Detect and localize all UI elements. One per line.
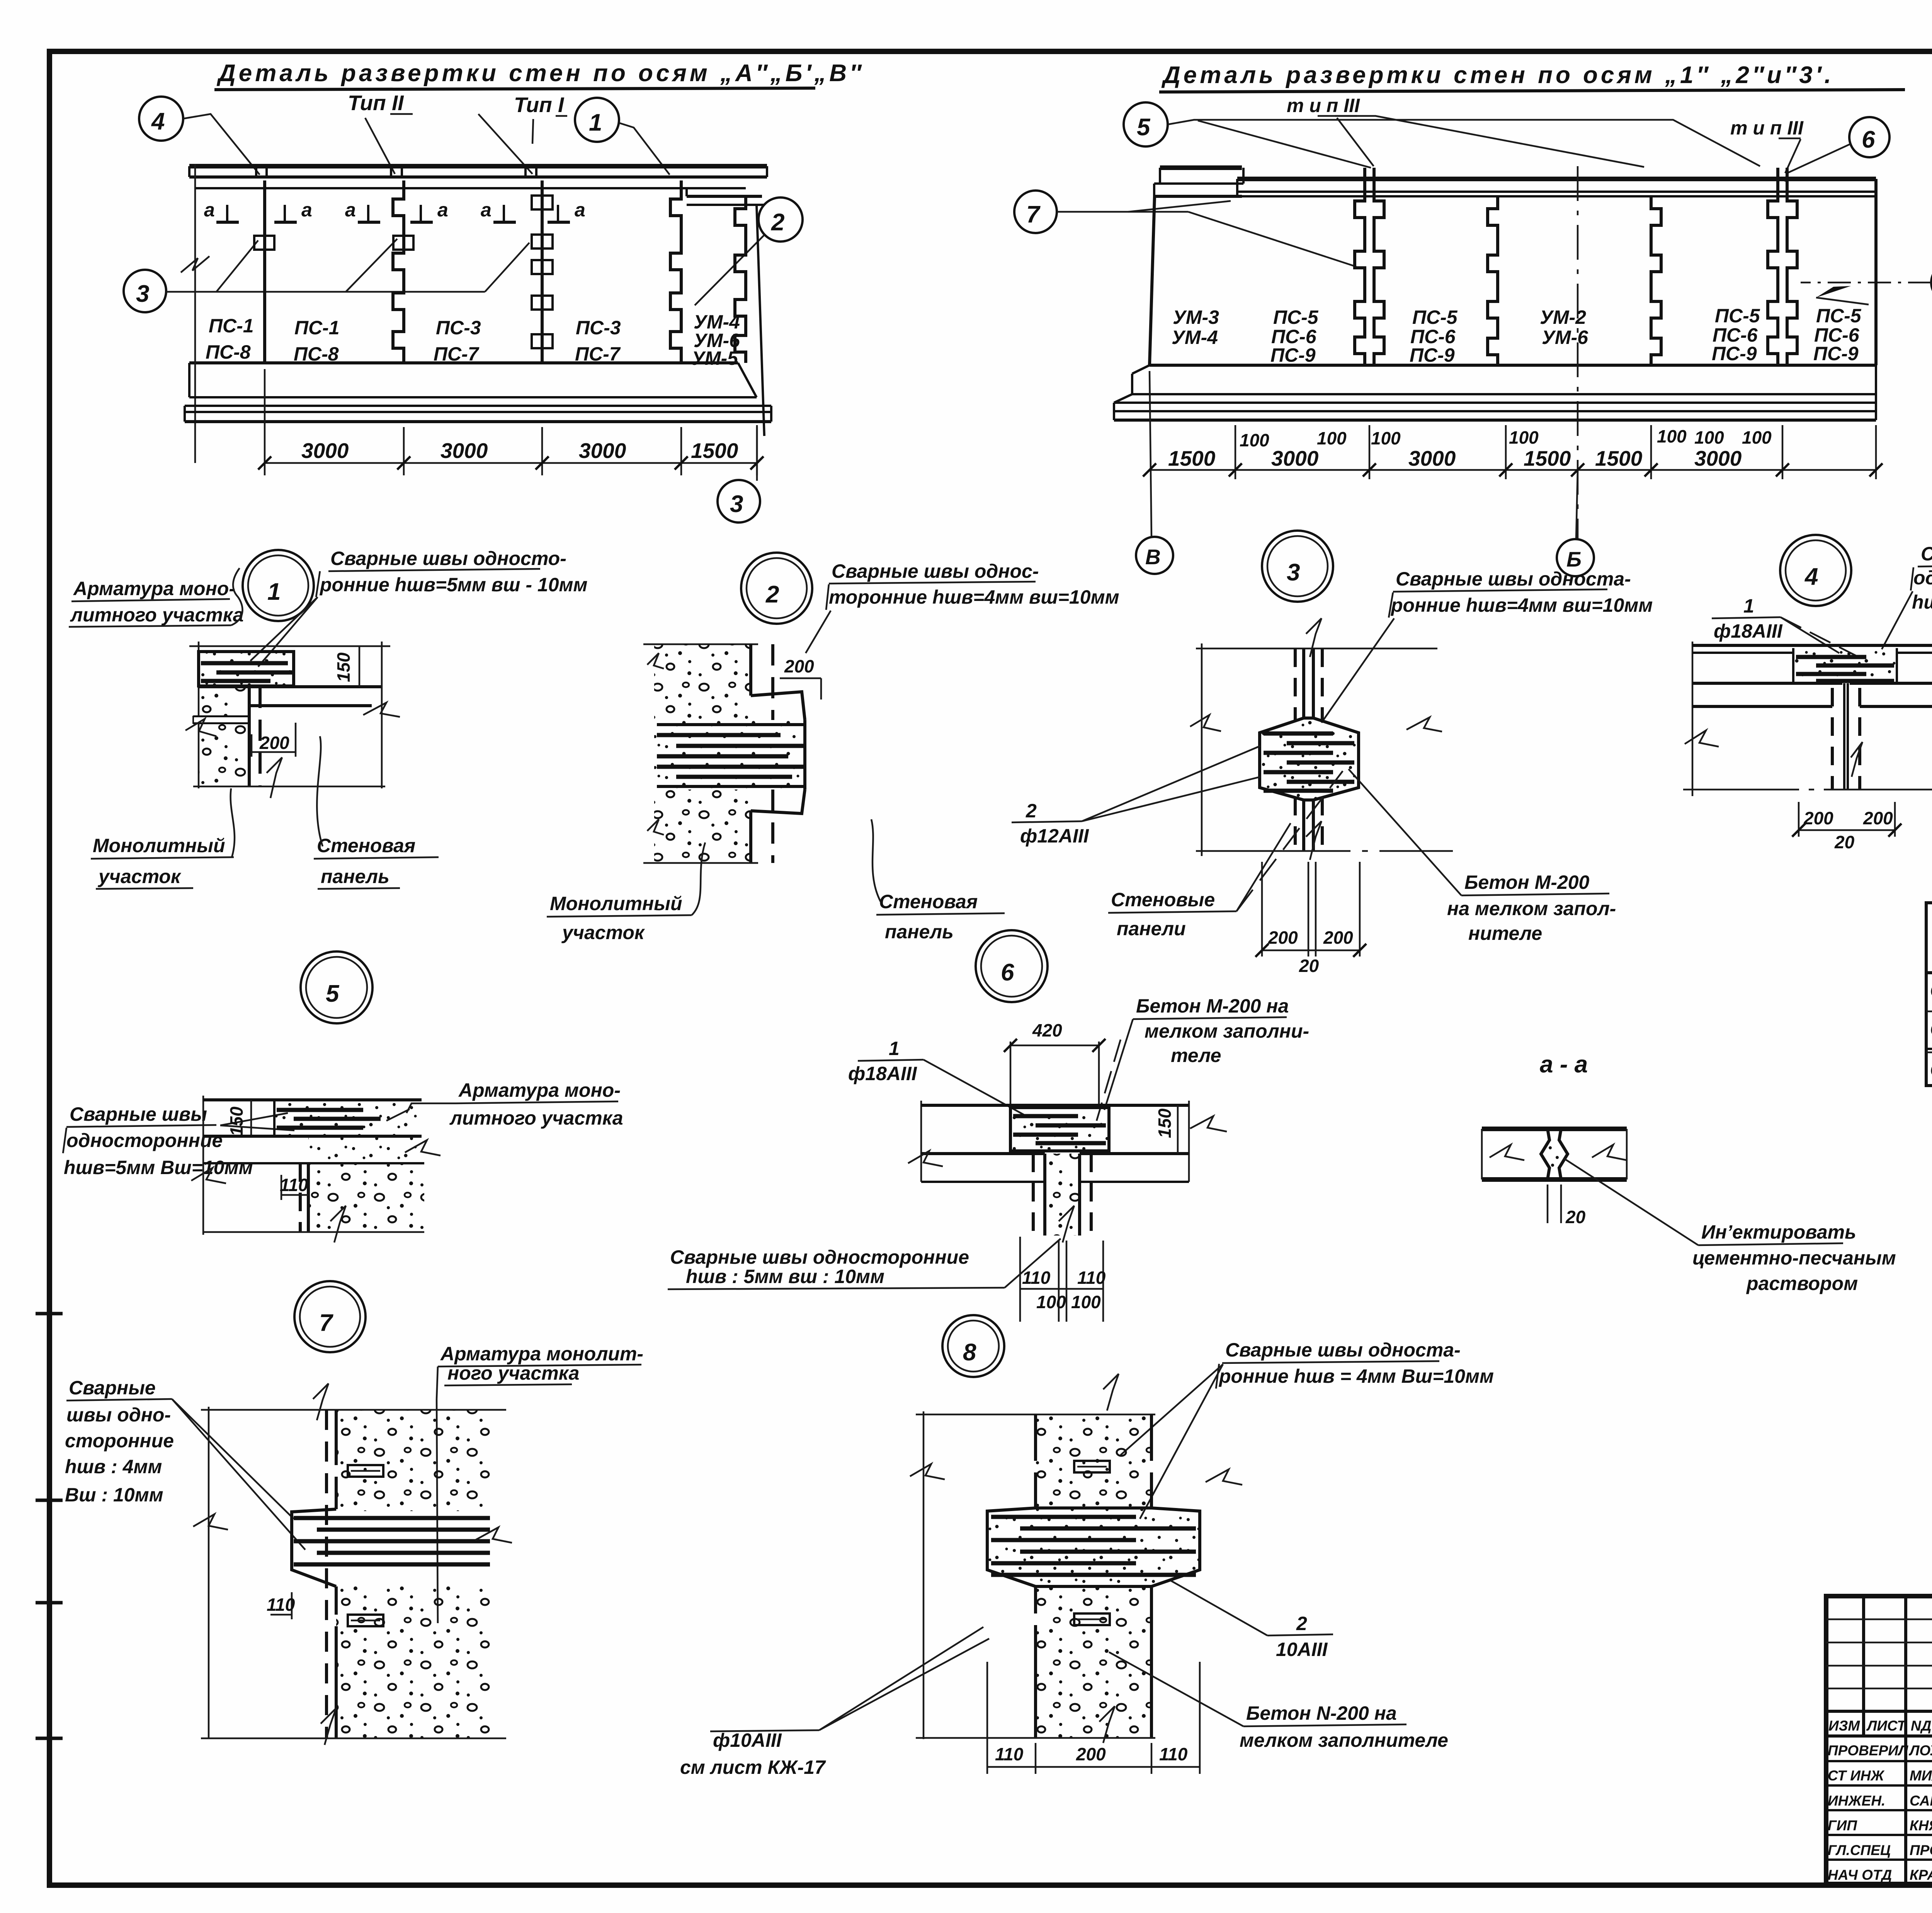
svg-text:Бетон N-200 на: Бетон N-200 на bbox=[1246, 1702, 1397, 1724]
callout circle 4 bbox=[139, 97, 260, 175]
break marks bbox=[193, 1514, 228, 1530]
svg-text:Стеновые: Стеновые bbox=[1111, 889, 1215, 911]
corner panel left bbox=[1150, 168, 1243, 365]
wall bottom edge bbox=[189, 361, 738, 364]
svg-text:ПС-3: ПС-3 bbox=[576, 317, 621, 339]
detail circle 4 bbox=[1780, 535, 1851, 606]
svg-text:Инʼектировать: Инʼектировать bbox=[1701, 1221, 1856, 1243]
binding ticks on left border bbox=[36, 1312, 63, 1316]
svg-text:Деталь развертки стен по ос: Деталь развертки стен по осям „А″„Б′„В″ bbox=[216, 60, 864, 87]
break marks bbox=[1685, 730, 1719, 747]
section a-a drawing bbox=[1482, 1129, 1627, 1227]
dims 110 200 110 det8 bbox=[987, 1662, 1200, 1774]
svg-text:Сварные швы одноcта-: Сварные швы одноcта- bbox=[1225, 1339, 1461, 1361]
label: Бетон М-200 на мелком заполнителе det6 bbox=[1097, 995, 1309, 1121]
svg-text:Тип II: Тип II bbox=[348, 91, 404, 115]
svg-text:hшв=6мм вш=10мм: hшв=6мм вш=10мм bbox=[1912, 591, 1932, 613]
svg-text:МИХАЛЕВА: МИХАЛЕВА bbox=[1910, 1768, 1932, 1784]
callout circle 3 bottom right bbox=[718, 425, 760, 523]
svg-text:ПС-9: ПС-9 bbox=[1410, 344, 1455, 366]
svg-text:100: 100 bbox=[1509, 427, 1539, 448]
joint тип III at 3544 bbox=[1355, 168, 1384, 365]
leader from Тип I to joint bbox=[532, 119, 533, 144]
break marks bbox=[908, 1151, 943, 1166]
label: Арматура монолитного участка det7 bbox=[437, 1343, 643, 1623]
lower column bbox=[1036, 1586, 1151, 1738]
svg-text:Сварные швы одноcта-: Сварные швы одноcта- bbox=[1396, 568, 1631, 590]
callout circle 7 bbox=[1014, 191, 1356, 267]
svg-text:1500: 1500 bbox=[691, 439, 738, 463]
wall top cap beam bbox=[189, 166, 767, 188]
corner cap right bbox=[687, 188, 764, 436]
joint тип III at 4613 bbox=[1768, 168, 1797, 365]
panel bottom edges bbox=[1692, 682, 1842, 685]
svg-text:Сварные: Сварные bbox=[69, 1377, 156, 1399]
svg-text:литного участка: литного участка bbox=[70, 604, 244, 626]
200 dim bbox=[251, 734, 253, 757]
svg-text:Стеновая: Стеновая bbox=[317, 835, 415, 856]
drawing detail 2: vertical joint elevation bbox=[643, 644, 821, 863]
svg-text:а: а bbox=[481, 199, 492, 221]
svg-text:КРАСАВИН: КРАСАВИН bbox=[1910, 1867, 1932, 1883]
svg-text:20: 20 bbox=[1565, 1207, 1586, 1227]
label: Сварные швы односторонние hшв 4мм (det3) bbox=[1321, 568, 1653, 723]
svg-text:Б: Б bbox=[1566, 547, 1582, 571]
concrete block below bbox=[199, 687, 249, 786]
svg-text:200: 200 bbox=[784, 656, 814, 676]
svg-text:САРАНЧА: САРАНЧА bbox=[1910, 1793, 1932, 1809]
label: Арматура монолитного участка det5 bbox=[386, 1079, 623, 1129]
lower panel tongue bbox=[751, 790, 805, 814]
base slab bbox=[185, 363, 771, 422]
label Тип I bbox=[514, 93, 567, 117]
svg-text:а: а bbox=[301, 199, 312, 221]
axis circle Б bbox=[1557, 539, 1594, 576]
svg-text:ПС-8: ПС-8 bbox=[294, 343, 339, 365]
svg-text:8: 8 bbox=[963, 1339, 976, 1366]
lower block bbox=[308, 1163, 424, 1232]
svg-text:мелком заполнителе: мелком заполнителе bbox=[1240, 1729, 1448, 1751]
svg-text:а: а bbox=[345, 199, 356, 221]
svg-text:ф12АIII: ф12АIII bbox=[1020, 825, 1089, 847]
svg-text:200: 200 bbox=[1268, 928, 1298, 948]
drawing detail 8 bbox=[910, 1374, 1242, 1743]
svg-text:участок: участок bbox=[97, 866, 182, 887]
personnel header bbox=[1828, 1718, 1932, 1734]
dimension line 3000x3 1500 bbox=[258, 369, 764, 475]
upper concrete column bbox=[336, 1410, 491, 1511]
callout circle 1 bbox=[575, 98, 670, 175]
svg-text:2: 2 bbox=[771, 209, 784, 236]
svg-text:ПС-8: ПС-8 bbox=[206, 341, 251, 363]
joint gap lines down bbox=[1843, 683, 1845, 790]
svg-text:Арматура моно-: Арматура моно- bbox=[73, 578, 235, 599]
svg-text:швы одно-: швы одно- bbox=[66, 1404, 171, 1426]
svg-text:УМ-4: УМ-4 bbox=[1172, 327, 1218, 348]
section marks a bbox=[204, 199, 585, 222]
callout circle 3 left bbox=[124, 239, 529, 312]
svg-text:10АIII: 10АIII bbox=[1276, 1639, 1328, 1660]
small 100 dims bbox=[1240, 426, 1772, 450]
svg-text:ф18АIII: ф18АIII bbox=[1714, 620, 1783, 642]
svg-text:110: 110 bbox=[267, 1595, 295, 1615]
svg-text:панели: панели bbox=[1117, 918, 1186, 939]
detail circle 2 bbox=[741, 553, 812, 624]
svg-text:100: 100 bbox=[1240, 430, 1269, 450]
svg-text:5: 5 bbox=[326, 980, 340, 1007]
monolith strip with welds bbox=[199, 652, 294, 686]
svg-text:ПС-9: ПС-9 bbox=[1712, 343, 1757, 364]
svg-text:УМ-3: УМ-3 bbox=[1173, 306, 1219, 328]
svg-text:110: 110 bbox=[280, 1175, 308, 1195]
main cap beam bbox=[1237, 179, 1876, 196]
label тип III left bbox=[1287, 95, 1360, 116]
svg-text:УМ-6: УМ-6 bbox=[1542, 327, 1588, 348]
svg-text:6: 6 bbox=[1001, 959, 1014, 986]
dashed axis bbox=[325, 1410, 328, 1738]
label: Бетон N-200 на мелком заполнителе bbox=[1109, 1652, 1448, 1751]
table2 rows bbox=[1930, 978, 1932, 1081]
lower concrete column bbox=[336, 1586, 491, 1739]
panel labels bbox=[206, 311, 740, 369]
svg-text:ПС-5: ПС-5 bbox=[1715, 305, 1760, 327]
label: 1 ф18АIII det6 bbox=[848, 1038, 1028, 1117]
break marks bbox=[1190, 715, 1221, 731]
svg-text:ГЛ.СПЕЦ: ГЛ.СПЕЦ bbox=[1828, 1842, 1891, 1858]
svg-text:панель: панель bbox=[885, 921, 954, 943]
label: Сварные швы односторонние hшв 5мм det5 bbox=[63, 1103, 294, 1178]
dims 110 110 100 100 det6 bbox=[1020, 1237, 1106, 1322]
upper column bbox=[1302, 648, 1305, 717]
svg-text:КНЯГНИЧЕВ: КНЯГНИЧЕВ bbox=[1910, 1818, 1932, 1833]
svg-text:ПС-7: ПС-7 bbox=[575, 343, 621, 365]
svg-text:3000: 3000 bbox=[301, 439, 349, 463]
dims 200 200 20 det3 bbox=[1255, 862, 1366, 976]
svg-text:3000: 3000 bbox=[1271, 446, 1319, 470]
svg-text:участок: участок bbox=[561, 922, 645, 943]
svg-text:ЛОУЦКЕР: ЛОУЦКЕР bbox=[1908, 1743, 1932, 1758]
svg-text:литного участка: литного участка bbox=[449, 1107, 623, 1129]
label: Сварные швы односторонние hшв 6мм bbox=[1882, 543, 1932, 649]
detail circle 8 bbox=[942, 1315, 1004, 1377]
svg-text:150: 150 bbox=[226, 1106, 247, 1136]
wall bottom bbox=[1150, 364, 1876, 367]
callout circle 6 bbox=[1785, 117, 1889, 182]
callout circle 2 bbox=[695, 197, 803, 305]
drawing detail 4: horizontal joint plan bbox=[1683, 642, 1932, 796]
svg-text:т и п III: т и п III bbox=[1730, 117, 1804, 139]
label: Монолитный участок det2 bbox=[547, 842, 705, 943]
svg-text:теле: теле bbox=[1171, 1045, 1221, 1066]
svg-text:Монолитный: Монолитный bbox=[93, 835, 225, 856]
svg-text:а: а bbox=[575, 199, 585, 221]
rhombus joint bbox=[1541, 1129, 1549, 1179]
svg-text:УМ-2: УМ-2 bbox=[1540, 306, 1586, 328]
svg-text:Тип I: Тип I bbox=[514, 93, 565, 117]
svg-text:ПС-5: ПС-5 bbox=[1273, 306, 1319, 328]
svg-text:т и п III: т и п III bbox=[1287, 95, 1360, 116]
svg-text:20: 20 bbox=[1299, 956, 1319, 976]
svg-text:2: 2 bbox=[1296, 1613, 1307, 1634]
svg-text:200: 200 bbox=[1803, 808, 1833, 828]
svg-text:7: 7 bbox=[1026, 201, 1041, 228]
middle band bbox=[308, 1138, 422, 1163]
svg-text:мелком заполни-: мелком заполни- bbox=[1145, 1020, 1309, 1042]
svg-text:1: 1 bbox=[267, 579, 281, 605]
drawing detail 1 corner joint bbox=[185, 642, 400, 798]
label: Сварные швы односторонние hшв 5мм bbox=[250, 548, 587, 667]
svg-text:односторонние: односторонние bbox=[1913, 567, 1932, 589]
label: Арматура монолитного участка bbox=[69, 568, 244, 627]
label: Инъектировать цементно-песчаным раствором bbox=[1564, 1159, 1896, 1294]
svg-text:100: 100 bbox=[1694, 427, 1724, 448]
svg-text:СТ ИНЖ: СТ ИНЖ bbox=[1828, 1768, 1885, 1784]
label: 2 10АIII det8 bbox=[1171, 1581, 1333, 1660]
second band line bbox=[921, 1181, 1045, 1183]
svg-text:Стык панелей ТипI: Стык панелей ТипI bbox=[1930, 980, 1932, 1001]
svg-text:1500: 1500 bbox=[1595, 446, 1643, 470]
svg-text:Деталь развертки стен по ос: Деталь развертки стен по осям „1″ „2″и″3… bbox=[1161, 62, 1834, 89]
dashed lines bbox=[1294, 648, 1297, 721]
svg-text:1: 1 bbox=[1743, 595, 1754, 617]
svg-text:3000: 3000 bbox=[1408, 446, 1456, 470]
leader from Тип II to joint bbox=[365, 118, 395, 174]
svg-text:100: 100 bbox=[1071, 1292, 1101, 1312]
base slab elev2 bbox=[1114, 365, 1876, 420]
svg-text:см лист КЖ-17: см лист КЖ-17 bbox=[680, 1756, 826, 1778]
svg-text:100: 100 bbox=[1657, 426, 1687, 446]
20 dim bbox=[1547, 1185, 1549, 1223]
svg-text:200: 200 bbox=[259, 733, 289, 753]
svg-text:100: 100 bbox=[1371, 428, 1401, 448]
110 dim bbox=[281, 1175, 282, 1200]
joint edge at 3876 bbox=[1488, 196, 1498, 365]
detail circle 7 bbox=[294, 1281, 366, 1352]
panel labels elev2 bbox=[1172, 305, 1862, 366]
panel joint 4 castellated bbox=[670, 180, 681, 363]
weld block bbox=[1793, 648, 1897, 682]
svg-text:а - а: а - а bbox=[1540, 1051, 1588, 1078]
svg-text:1: 1 bbox=[589, 109, 602, 136]
break marks bbox=[1490, 1145, 1524, 1160]
section a-a title bbox=[1540, 1051, 1588, 1078]
svg-text:1500: 1500 bbox=[1524, 446, 1571, 470]
svg-text:3: 3 bbox=[730, 491, 743, 517]
right wall edge bbox=[1874, 179, 1878, 365]
detail circle 5 bbox=[301, 951, 372, 1023]
svg-text:hшв : 4мм: hшв : 4мм bbox=[65, 1456, 162, 1477]
drawing detail 7 bbox=[193, 1384, 512, 1745]
svg-text:110: 110 bbox=[1159, 1744, 1188, 1764]
panel joint 3 with plates bbox=[532, 180, 553, 363]
corner panel right edge castellated bbox=[735, 196, 746, 363]
drawing detail 3: X joint plan bbox=[1190, 618, 1453, 860]
svg-text:110: 110 bbox=[995, 1744, 1024, 1764]
svg-text:Сварные швы: Сварные швы bbox=[70, 1103, 207, 1125]
svg-text:6: 6 bbox=[1862, 126, 1875, 153]
break marks bbox=[191, 1168, 226, 1183]
svg-text:ф10АIII: ф10АIII bbox=[713, 1729, 782, 1751]
cap joint notches bbox=[256, 166, 536, 177]
svg-text:ИНЖЕН.: ИНЖЕН. bbox=[1828, 1793, 1885, 1809]
svg-text:ЛИСТ: ЛИСТ bbox=[1866, 1718, 1907, 1734]
svg-text:200: 200 bbox=[1863, 808, 1893, 828]
detail circle 6 bbox=[976, 930, 1048, 1002]
svg-text:Бетон М-200: Бетон М-200 bbox=[1464, 871, 1590, 893]
svg-text:3000: 3000 bbox=[440, 439, 488, 463]
revision rows top left bbox=[1826, 1619, 1932, 1860]
axis line 2 bbox=[1577, 166, 1579, 539]
svg-text:Сварные швы одноc-: Сварные швы одноc- bbox=[832, 560, 1039, 582]
svg-text:110: 110 bbox=[1022, 1268, 1051, 1288]
label: Монолитный участок bbox=[91, 788, 235, 889]
label: 1 ф18АIII det4 bbox=[1712, 595, 1859, 657]
svg-text:ПС-7: ПС-7 bbox=[434, 343, 480, 365]
column below bbox=[1045, 1154, 1080, 1236]
break marks bbox=[910, 1464, 945, 1479]
axis circle В bbox=[1136, 537, 1173, 574]
svg-text:200: 200 bbox=[1323, 928, 1353, 948]
label: 2 ф12АIII bbox=[1012, 746, 1260, 847]
svg-text:ПС-5: ПС-5 bbox=[1816, 305, 1862, 327]
bulge bbox=[987, 1508, 1200, 1586]
svg-text:ПС-9: ПС-9 bbox=[1270, 344, 1316, 366]
label: Сварные швы односторонние hшв 4мм det8 bbox=[1121, 1339, 1494, 1519]
svg-text:ПС-3: ПС-3 bbox=[436, 317, 481, 339]
panel joint line 1 bbox=[254, 180, 274, 363]
svg-text:Стык панелей Тип II: Стык панелей Тип II bbox=[1930, 1018, 1932, 1040]
svg-text:панель: панель bbox=[321, 866, 389, 887]
svg-text:150: 150 bbox=[1155, 1108, 1175, 1138]
label: Стеновая панель det2 bbox=[871, 819, 1005, 943]
svg-text:В: В bbox=[1145, 545, 1161, 569]
wall panel top edge bbox=[199, 685, 381, 688]
svg-text:НАЧ ОТД: НАЧ ОТД bbox=[1828, 1867, 1892, 1883]
svg-text:Бетон М-200 на: Бетон М-200 на bbox=[1136, 995, 1289, 1017]
break marks bbox=[185, 719, 216, 736]
svg-text:ПС-1: ПС-1 bbox=[294, 317, 340, 339]
svg-text:hшв=5мм Вш=10мм: hшв=5мм Вш=10мм bbox=[64, 1157, 253, 1178]
svg-text:односторонние: односторонние bbox=[66, 1130, 223, 1151]
svg-text:2: 2 bbox=[1026, 800, 1037, 822]
svg-text:3000: 3000 bbox=[1694, 446, 1742, 470]
dim line elev2 bbox=[1143, 371, 1883, 539]
svg-text:ронние hшв=5мм вш - 10мм: ронние hшв=5мм вш - 10мм bbox=[319, 574, 587, 596]
svg-text:3000: 3000 bbox=[579, 439, 626, 463]
leader тип III left to joints bbox=[1318, 116, 1644, 167]
lower column bbox=[1302, 800, 1305, 851]
weld block bbox=[1010, 1108, 1109, 1151]
svg-text:ф18АIII: ф18АIII bbox=[848, 1063, 917, 1084]
svg-text:1500: 1500 bbox=[1168, 446, 1216, 470]
callout circle 5 bbox=[1124, 102, 1760, 168]
bottom line bbox=[193, 786, 385, 788]
svg-text:нителе: нителе bbox=[1468, 922, 1542, 944]
dims 200 200 20 det4 bbox=[1792, 802, 1901, 852]
upper column bbox=[1036, 1414, 1151, 1509]
weld band bbox=[654, 720, 805, 790]
upper concrete block bbox=[654, 644, 751, 720]
label тип III right bbox=[1730, 117, 1804, 139]
bulge block bbox=[1260, 718, 1359, 800]
svg-text:ПРОВЕРИЛ: ПРОВЕРИЛ bbox=[1828, 1743, 1909, 1758]
svg-text:Сварные швы: Сварные швы bbox=[1921, 543, 1932, 565]
420 dim det6 bbox=[1004, 1020, 1105, 1106]
lower concrete block bbox=[654, 790, 751, 863]
svg-text:3: 3 bbox=[1287, 559, 1300, 586]
svg-text:1: 1 bbox=[889, 1038, 900, 1059]
dashed edge bbox=[771, 644, 774, 720]
drawing detail 5 bbox=[191, 1096, 440, 1242]
svg-text:4: 4 bbox=[151, 108, 165, 135]
svg-text:100: 100 bbox=[1742, 427, 1772, 448]
weld strip bbox=[274, 1101, 422, 1136]
svg-text:цементно-песчаным: цементно-песчаным bbox=[1692, 1247, 1896, 1269]
svg-text:ПС-5: ПС-5 bbox=[1412, 306, 1458, 328]
bulge left bbox=[292, 1509, 336, 1586]
break mark on extension bbox=[181, 256, 209, 272]
label: ф10АIII см лист КЖ-17 bbox=[680, 1627, 989, 1778]
svg-text:Арматура монолит-: Арматура монолит- bbox=[440, 1343, 643, 1365]
title block frame bbox=[1826, 1596, 1932, 1885]
svg-text:150: 150 bbox=[333, 652, 354, 682]
svg-text:ронние hшв=4мм вш=10мм: ронние hшв=4мм вш=10мм bbox=[1390, 594, 1653, 616]
110 dim bbox=[291, 1592, 293, 1619]
svg-text:ПС-9: ПС-9 bbox=[1813, 343, 1859, 364]
svg-text:3: 3 bbox=[136, 281, 149, 307]
label: Стеновая панель bbox=[314, 736, 439, 889]
svg-text:ГИП: ГИП bbox=[1828, 1818, 1857, 1833]
svg-text:7: 7 bbox=[319, 1310, 333, 1336]
svg-text:а: а bbox=[204, 199, 215, 221]
drawing detail 6: T joint bbox=[908, 1101, 1227, 1242]
detail circle 3 bbox=[1262, 531, 1333, 602]
svg-text:Сварные швы односторонние: Сварные швы односторонние bbox=[670, 1246, 969, 1268]
svg-text:110: 110 bbox=[1077, 1268, 1106, 1288]
svg-text:100: 100 bbox=[1317, 428, 1347, 448]
svg-text:100: 100 bbox=[1036, 1292, 1066, 1312]
svg-text:Монолитный: Монолитный bbox=[550, 893, 682, 914]
svg-text:ронние hшв = 4мм Вш=10мм: ронние hшв = 4мм Вш=10мм bbox=[1218, 1365, 1494, 1387]
svg-text:Вш : 10мм: Вш : 10мм bbox=[65, 1484, 163, 1506]
callout circle 8 bbox=[1801, 263, 1932, 305]
svg-text:200: 200 bbox=[1076, 1744, 1106, 1764]
svg-text:5: 5 bbox=[1137, 114, 1151, 141]
svg-text:420: 420 bbox=[1032, 1020, 1062, 1040]
svg-text:Стеновая: Стеновая bbox=[879, 891, 978, 912]
svg-text:ИЗМ: ИЗМ bbox=[1828, 1718, 1860, 1734]
svg-text:Сварные швы односто-: Сварные швы односто- bbox=[330, 548, 566, 569]
personnel names bbox=[1828, 1743, 1932, 1883]
label: Сварные швы hшв 4мм (right of circle2) bbox=[806, 560, 1119, 653]
svg-text:4: 4 bbox=[1804, 563, 1818, 590]
label: Сварные швы односторонние hшв 4мм det7 bbox=[65, 1377, 305, 1550]
panel joint 2 castellated bbox=[393, 180, 413, 363]
label Тип II bbox=[348, 91, 413, 115]
svg-text:на мелком запол-: на мелком запол- bbox=[1447, 898, 1616, 919]
connector plate upper bbox=[348, 1465, 383, 1477]
svg-text:Стык панелей Тип III: Стык панелей Тип III bbox=[1930, 1059, 1932, 1081]
left extension line bbox=[194, 164, 196, 463]
svg-text:20: 20 bbox=[1834, 832, 1855, 852]
svg-text:NДОКУМ.: NДОКУМ. bbox=[1911, 1718, 1932, 1734]
svg-text:сторонние: сторонние bbox=[65, 1430, 174, 1452]
detail circle 1 bbox=[243, 550, 314, 621]
label: Бетон М-200 на мелком заполнителе bbox=[1349, 769, 1616, 944]
label: Стеновые панели bbox=[1108, 771, 1343, 939]
svg-text:торонние hшв=4мм вш=10мм: торонние hшв=4мм вш=10мм bbox=[829, 586, 1119, 608]
title: Деталь развертки стен по осям 1 2 и 3 bbox=[1159, 62, 1905, 92]
